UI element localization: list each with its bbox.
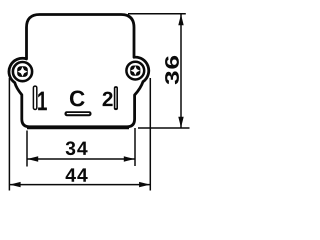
terminal C label — [70, 90, 85, 106]
dimension 44 extension line right — [149, 78, 151, 191]
right mounting screw head — [126, 62, 144, 80]
dimension 34 line — [27, 158, 135, 160]
dimension 34 extension line right — [134, 128, 136, 166]
dimension 34 extension line left — [26, 131, 28, 167]
dimension 36 arrow up — [178, 14, 183, 25]
dimension 44 arrow right — [139, 182, 150, 187]
dimension 44 arrow left — [10, 182, 21, 187]
terminal C slot — [65, 111, 92, 116]
dimension 36 arrow down — [178, 117, 183, 128]
pin 2 slot — [114, 86, 118, 110]
pin 1 label — [38, 92, 47, 111]
pin 1 slot — [33, 86, 36, 109]
wire bottom edge emphasis — [27, 127, 129, 129]
dimension 36 text — [165, 56, 179, 85]
dimension 44 text — [66, 168, 88, 181]
dimension 44 line — [10, 184, 151, 186]
dimension 34 arrow left — [27, 156, 38, 161]
dimension 44 extension line left — [8, 78, 10, 191]
pin 2 label — [103, 92, 113, 107]
left mounting screw head — [13, 62, 32, 81]
relay body outline — [9, 15, 149, 127]
dimension 34 text — [66, 141, 88, 155]
dimension 34 arrow right — [124, 156, 135, 161]
dimension 36 extension line bottom — [138, 127, 190, 129]
dimension 36 line — [180, 14, 182, 128]
dimension 36 extension line top — [128, 13, 186, 15]
